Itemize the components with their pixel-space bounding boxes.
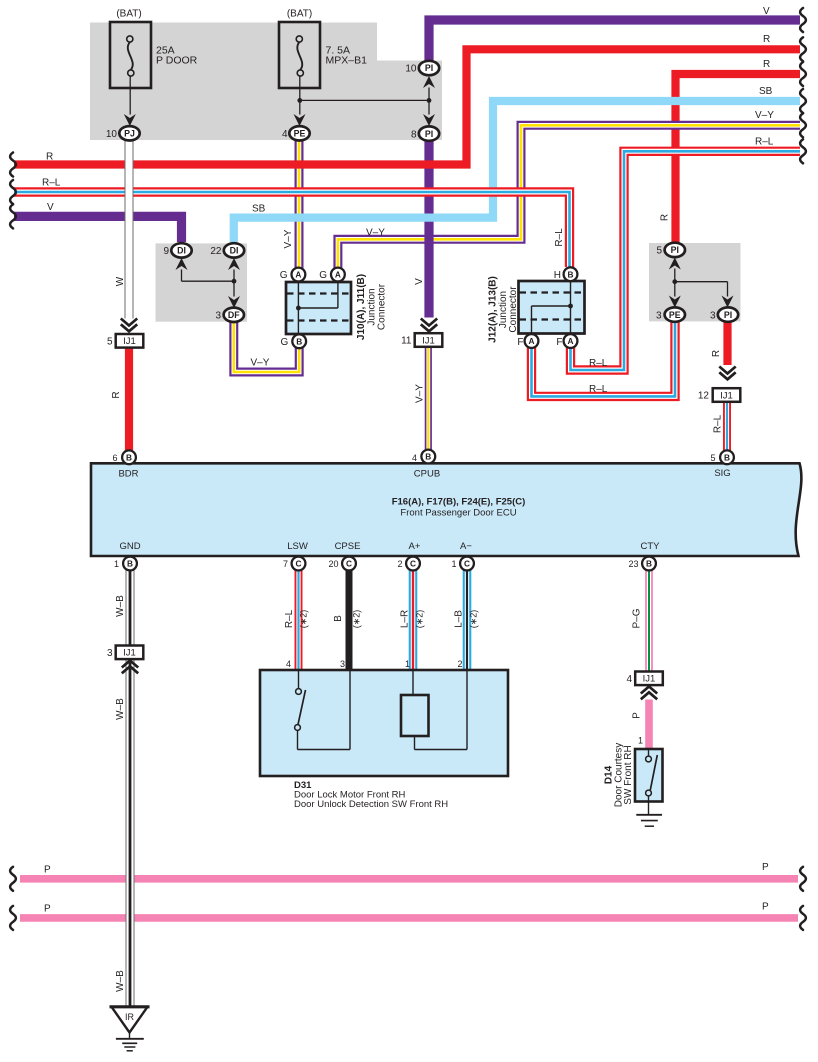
svg-text:3: 3 — [340, 659, 345, 669]
svg-text:4: 4 — [282, 129, 288, 140]
svg-text:DI: DI — [177, 246, 186, 256]
wire R-L from LSW to D31 pin 4 — [295, 570, 303, 670]
label J10(A) J11(B) Junction Connector — [356, 274, 388, 340]
svg-text:(∗2): (∗2) — [415, 610, 425, 629]
svg-text:L–B: L–B — [454, 610, 465, 628]
chevron into IJ1 5 — [121, 319, 137, 326]
junction connector J12(A) J13(B) — [519, 281, 585, 334]
chevron into IJ1 11 — [421, 319, 437, 326]
svg-text:1: 1 — [405, 659, 410, 669]
wire B from CPSE to D31 pin 3 — [346, 570, 353, 670]
wire P bus upper — [20, 875, 798, 883]
svg-text:(∗2): (∗2) — [299, 610, 309, 629]
relay block background (PI/PE right) — [649, 243, 741, 321]
joint 11 IJ1 — [415, 333, 443, 347]
svg-text:B: B — [724, 453, 730, 463]
break symbol R-L right — [800, 139, 806, 163]
wire SB (right edge to 22 DI) — [234, 101, 800, 242]
wire 5 PI internal — [674, 269, 676, 297]
label J12(A) J13(B) Junction Connector — [488, 276, 520, 343]
wire R-L bus (left edge to J12 pin B) — [14, 192, 570, 267]
switch in D31 — [298, 670, 300, 689]
pin A2 of J10 — [331, 268, 345, 282]
svg-text:DI: DI — [230, 246, 239, 256]
node 5 PI internal — [672, 279, 677, 284]
svg-text:6: 6 — [112, 453, 117, 463]
fuse 7.5A MPX-B1 — [279, 22, 320, 88]
svg-text:J12(A), J13(B): J12(A), J13(B) — [488, 276, 499, 343]
svg-text:5: 5 — [710, 453, 715, 463]
wire R-L from 3 PE to J12 pin F1 — [532, 320, 676, 396]
svg-text:P DOOR: P DOOR — [156, 55, 198, 67]
svg-text:F: F — [556, 337, 562, 348]
svg-text:8: 8 — [411, 129, 417, 140]
svg-text:12: 12 — [698, 391, 710, 402]
connector 22 DI — [224, 243, 244, 257]
svg-text:V–Y: V–Y — [755, 110, 774, 121]
svg-text:PI: PI — [724, 310, 732, 320]
svg-text:R: R — [711, 350, 722, 357]
svg-text:W–B: W–B — [115, 595, 126, 617]
relay block background (DI/DF) — [156, 243, 248, 321]
arrow into 3 PE — [669, 296, 681, 308]
wire R-L from IJ1 12 to SIG — [723, 402, 731, 452]
svg-text:P–G: P–G — [632, 608, 643, 628]
wire R to 5 PI (from right edge) — [676, 74, 801, 248]
arrow into 8 PI — [423, 114, 435, 126]
svg-text:3: 3 — [215, 311, 221, 322]
svg-text:A: A — [529, 336, 535, 346]
svg-text:V–Y: V–Y — [415, 384, 426, 403]
svg-text:V: V — [47, 202, 54, 213]
svg-text:V: V — [414, 278, 425, 285]
svg-text:22: 22 — [210, 246, 222, 257]
svg-text:V–Y: V–Y — [251, 358, 270, 369]
svg-text:PI: PI — [671, 245, 679, 255]
connector 3 PI — [718, 307, 738, 321]
ground IR — [112, 1007, 148, 1033]
break symbol R left — [10, 153, 16, 177]
wire DI internal — [181, 270, 183, 282]
component D14 Door Courtesy SW Front RH — [635, 749, 663, 802]
connector 5 PI — [665, 243, 685, 257]
svg-text:C: C — [464, 559, 470, 569]
pin 2 C A+ — [406, 557, 420, 571]
wire W from 10 PJ to IJ1 5 — [125, 139, 134, 319]
break symbol V right — [800, 8, 806, 32]
svg-text:C: C — [346, 559, 352, 569]
svg-text:W–B: W–B — [115, 970, 126, 992]
svg-text:B: B — [296, 337, 302, 347]
label D14 Door Courtesy SW Front RH — [604, 743, 635, 807]
svg-text:Connector: Connector — [508, 286, 519, 333]
svg-text:CPUB: CPUB — [414, 469, 440, 480]
arrow into 9 DI — [176, 258, 188, 270]
arrow into 10 PI — [423, 76, 435, 88]
svg-text:PI: PI — [425, 129, 433, 139]
arrow into 22 DI — [228, 258, 240, 270]
pin 23 B CTY — [642, 557, 656, 571]
break symbol V left — [10, 204, 16, 228]
svg-text:B: B — [333, 615, 344, 622]
pin F1 of J12 — [525, 334, 539, 348]
wire P-G from CTY to IJ1 4 — [645, 570, 653, 672]
arrow into 5 PI — [669, 258, 681, 270]
svg-text:4: 4 — [286, 659, 291, 669]
svg-text:R: R — [763, 34, 770, 45]
svg-text:B: B — [425, 452, 431, 462]
svg-text:5: 5 — [656, 246, 662, 257]
connector 10 PI — [419, 61, 439, 75]
svg-text:1: 1 — [114, 559, 119, 569]
svg-text:L–R: L–R — [400, 610, 411, 628]
svg-text:3: 3 — [656, 310, 662, 321]
svg-text:R–L: R–L — [755, 137, 774, 148]
svg-text:G: G — [280, 270, 288, 281]
wire W-B from GND to IJ1 3 — [126, 570, 135, 646]
svg-text:R–L: R–L — [284, 609, 295, 628]
wire R-L right edge to J12 pin F2 — [571, 151, 801, 370]
svg-text:IJ1: IJ1 — [720, 390, 733, 401]
connector 3 DF — [224, 308, 244, 322]
break symbol P2 left — [10, 906, 16, 930]
arrow into 3 PI — [722, 296, 734, 308]
svg-text:(∗2): (∗2) — [469, 610, 479, 629]
svg-text:IJ1: IJ1 — [643, 674, 656, 685]
node fuse2 tap — [297, 98, 302, 103]
svg-text:P: P — [762, 902, 769, 913]
pin A1 of J10 — [292, 268, 306, 282]
svg-text:IJ1: IJ1 — [422, 335, 435, 346]
svg-text:1: 1 — [638, 736, 643, 746]
svg-text:20: 20 — [328, 559, 338, 569]
fuse 25A P DOOR — [110, 22, 151, 88]
svg-text:IJ1: IJ1 — [123, 336, 136, 347]
break symbol R right 1 — [800, 37, 806, 61]
svg-text:R–L: R–L — [554, 228, 565, 247]
arrow into 3 DF — [228, 296, 240, 308]
svg-text:SB: SB — [759, 86, 773, 97]
svg-text:LSW: LSW — [287, 541, 308, 552]
svg-text:5: 5 — [107, 336, 113, 347]
svg-text:10: 10 — [106, 129, 118, 140]
svg-text:W–B: W–B — [115, 698, 126, 720]
fuse block background (top left) — [90, 23, 442, 141]
node PI tap — [427, 98, 432, 103]
svg-text:R–L: R–L — [589, 358, 608, 369]
pin 1 B GND — [123, 557, 137, 571]
pin 1 C A- — [460, 557, 474, 571]
svg-text:R: R — [46, 152, 53, 163]
svg-text:PI: PI — [425, 63, 433, 73]
svg-text:F16(A), F17(B), F24(E), F25(C): F16(A), F17(B), F24(E), F25(C) — [392, 497, 526, 508]
svg-text:V–Y: V–Y — [283, 229, 294, 248]
svg-text:F: F — [517, 337, 523, 348]
svg-text:IR: IR — [125, 1012, 135, 1022]
pin 5 B SIG — [720, 450, 734, 464]
svg-text:SIG: SIG — [714, 468, 730, 479]
svg-text:A: A — [295, 270, 301, 280]
svg-text:9: 9 — [163, 246, 169, 257]
wire V bus (left edge to 9 DI) — [14, 216, 182, 242]
pin B of J10 — [292, 334, 306, 348]
svg-text:SW Front RH: SW Front RH — [623, 745, 634, 804]
break symbol P2 right — [800, 906, 806, 930]
wire R from 3 PI to IJ1 12 — [723, 320, 731, 365]
chevron into IJ1 4 — [641, 687, 657, 694]
ECU F16(A) F17(B) F24(E) F25(C) Front Passenger Door ECU — [91, 463, 801, 556]
svg-text:R: R — [660, 214, 671, 221]
wire tap to PI arrows — [300, 99, 429, 101]
pin B of J12 — [564, 267, 578, 281]
pin 4 B CPUB — [421, 450, 435, 464]
svg-text:H: H — [554, 270, 561, 281]
svg-text:PE: PE — [669, 310, 681, 320]
svg-text:GND: GND — [119, 541, 140, 552]
break symbol P1 right — [800, 867, 806, 891]
svg-text:Connector: Connector — [377, 283, 388, 330]
svg-text:CTY: CTY — [641, 541, 661, 552]
connector 9 DI — [171, 243, 191, 257]
break symbol V-Y right — [800, 113, 806, 137]
wire P bus lower — [20, 914, 798, 922]
svg-text:W: W — [115, 276, 126, 286]
wire fuse1 to 10 PJ — [129, 76, 131, 114]
svg-text:Door Unlock Detection SW Front: Door Unlock Detection SW Front RH — [294, 799, 448, 810]
wire V-Y from 3 DF to J10 pin B — [234, 321, 299, 372]
svg-text:V–Y: V–Y — [366, 228, 385, 239]
wire V (right edge to 10 PI) — [429, 20, 800, 66]
svg-text:(∗2): (∗2) — [352, 610, 362, 629]
break symbol SB right — [800, 89, 806, 113]
svg-text:IJ1: IJ1 — [123, 648, 136, 659]
switch in D14 — [648, 749, 650, 756]
break symbol P1 left — [10, 867, 16, 891]
svg-text:10: 10 — [405, 64, 417, 75]
wire L-R from A+ to D31 pin 1 — [409, 570, 418, 670]
joint 3 IJ1 — [116, 646, 144, 660]
svg-text:2: 2 — [457, 659, 462, 669]
svg-text:P: P — [632, 712, 643, 719]
svg-text:(BAT): (BAT) — [116, 9, 141, 20]
joint 12 IJ1 — [713, 388, 741, 402]
node DI internal — [232, 279, 237, 284]
wire V-Y from right edge to J10 pin A2 — [338, 125, 800, 272]
component D31 Door Lock Motor Front RH — [260, 670, 508, 776]
svg-text:A−: A− — [460, 541, 472, 552]
svg-text:R: R — [111, 391, 122, 398]
chevron into IJ1 12 — [719, 367, 735, 374]
svg-text:3: 3 — [107, 648, 113, 659]
pin 20 C CPSE — [342, 557, 356, 571]
svg-text:A: A — [335, 270, 341, 280]
break symbol R right 2 — [800, 62, 806, 86]
wire W-B from IJ1 3 to ground IR — [126, 660, 135, 1008]
svg-text:R–L: R–L — [589, 384, 608, 395]
svg-text:B: B — [568, 269, 574, 279]
svg-text:C: C — [410, 559, 416, 569]
wire L-B from A- to D31 pin 2 — [463, 570, 472, 670]
svg-text:2: 2 — [397, 559, 402, 569]
joint 5 IJ1 — [116, 334, 144, 348]
svg-text:7: 7 — [283, 559, 288, 569]
wire fuse2 to 4 PE — [299, 76, 301, 114]
connector 4 PE — [289, 126, 309, 140]
connector 3 PE — [665, 307, 685, 321]
pin F2 of J12 — [564, 334, 578, 348]
wire V (8 PI to IJ1 11) — [424, 133, 433, 318]
joint 4 IJ1 — [635, 672, 663, 686]
connector 10 PJ — [119, 126, 139, 140]
connector 8 PI — [419, 126, 439, 140]
svg-text:P: P — [762, 862, 769, 873]
svg-text:PJ: PJ — [124, 129, 135, 139]
svg-text:PE: PE — [294, 129, 306, 139]
svg-text:BDR: BDR — [118, 469, 138, 480]
svg-text:A: A — [568, 336, 574, 346]
svg-text:R: R — [763, 59, 770, 70]
pin 7 C LSW — [292, 557, 306, 571]
svg-text:P: P — [44, 865, 51, 876]
svg-text:CPSE: CPSE — [335, 541, 361, 552]
svg-text:C: C — [296, 559, 302, 569]
junction connector J10(A) J11(B) — [286, 282, 351, 334]
wire R bus (left edge up to right edge) — [14, 49, 800, 164]
break symbol R-L left — [10, 180, 16, 204]
svg-text:1: 1 — [451, 559, 456, 569]
ground at D14 — [636, 814, 662, 816]
svg-text:V: V — [763, 6, 770, 17]
svg-text:3: 3 — [710, 310, 716, 321]
svg-text:Front Passenger Door ECU: Front Passenger Door ECU — [400, 508, 516, 519]
svg-text:MPX–B1: MPX–B1 — [326, 55, 368, 67]
svg-text:J10(A), J11(B): J10(A), J11(B) — [356, 274, 367, 340]
chevron out of IJ1 3 — [122, 661, 138, 668]
wire R from IJ1 5 to BDR — [125, 348, 133, 452]
svg-text:G: G — [281, 337, 289, 348]
wire P from IJ1 4 to D14 pin 1 — [645, 700, 653, 750]
wire V-Y from PE to J10 pin A — [295, 138, 304, 272]
svg-text:B: B — [126, 453, 132, 463]
svg-text:G: G — [319, 270, 327, 281]
svg-text:(BAT): (BAT) — [287, 9, 312, 20]
svg-text:R–L: R–L — [713, 414, 724, 433]
svg-text:R–L: R–L — [42, 178, 61, 189]
svg-text:4: 4 — [626, 674, 632, 685]
pin 6 B BDR — [122, 450, 136, 464]
svg-text:B: B — [646, 559, 652, 569]
svg-text:4: 4 — [412, 453, 417, 463]
svg-text:11: 11 — [401, 336, 412, 347]
wire V-Y from IJ1 11 to CPUB — [425, 347, 432, 450]
motor in D31 — [412, 670, 414, 695]
svg-text:23: 23 — [628, 559, 638, 569]
svg-text:A+: A+ — [409, 541, 421, 552]
svg-text:SB: SB — [252, 204, 266, 215]
svg-text:P: P — [44, 904, 51, 915]
svg-text:DF: DF — [228, 310, 240, 320]
svg-text:B: B — [127, 559, 133, 569]
